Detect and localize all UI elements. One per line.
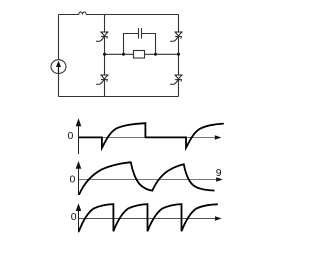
svg-text:0: 0 (70, 174, 76, 186)
svg-text:0: 0 (71, 211, 77, 223)
svg-text:0: 0 (68, 130, 74, 142)
svg-text:9: 9 (216, 167, 222, 179)
